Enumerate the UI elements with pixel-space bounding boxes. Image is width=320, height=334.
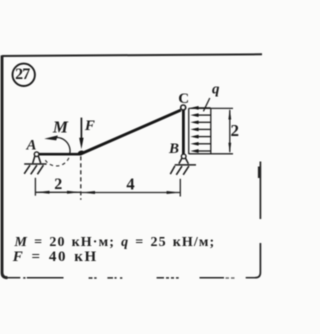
svg-text:q: q [212, 82, 220, 98]
svg-text:F: F [84, 118, 95, 134]
svg-text:A: A [25, 138, 36, 154]
svg-text:27: 27 [15, 66, 30, 83]
svg-text:M: M [52, 118, 69, 137]
svg-text:2: 2 [54, 176, 62, 193]
svg-text:B: B [168, 141, 179, 157]
svg-text:C: C [178, 91, 189, 107]
svg-text:2: 2 [230, 121, 239, 140]
svg-text:4: 4 [126, 174, 134, 193]
